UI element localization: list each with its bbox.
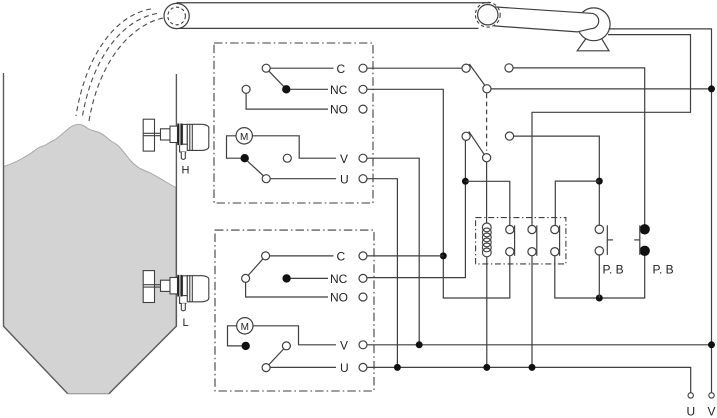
node: U row / H-U line junction	[394, 364, 400, 370]
pipe elbow	[164, 3, 189, 28]
H box: V side contact circle	[283, 154, 291, 162]
svg-text:NC: NC	[330, 272, 348, 286]
gang link (dashed)	[486, 94, 488, 151]
wire H box C to selector	[367, 67, 462, 69]
label V (terminal)	[708, 405, 716, 418]
relay contact K1	[506, 225, 515, 255]
wire H box U down to L box U row	[367, 179, 397, 368]
label U (H box)	[340, 172, 349, 186]
H box: NC contact (closed, filled)	[283, 86, 290, 93]
svg-text:M: M	[241, 322, 249, 333]
L box: motor pivot contact (filled)	[242, 342, 249, 349]
label L	[183, 317, 189, 329]
svg-text:V: V	[340, 152, 348, 166]
H box: terminal V	[359, 154, 367, 162]
push button PB1 (NO)	[595, 225, 613, 298]
selector switch lower pole: moving contact	[483, 154, 491, 162]
label U (L box)	[340, 361, 349, 375]
relay contact K3	[551, 225, 560, 255]
L box: NC contact (filled)	[283, 275, 290, 282]
H box: terminal NO	[359, 105, 367, 113]
label V (L box)	[340, 339, 348, 353]
motor M (L box)	[237, 318, 253, 334]
label P.B (PB1)	[603, 263, 624, 277]
L box: wire NO row	[246, 282, 328, 297]
level switch H (paddle sensor)	[143, 119, 209, 159]
pump base	[577, 39, 609, 51]
tank left wall	[4, 73, 68, 394]
svg-text:P. B: P. B	[603, 263, 624, 277]
L box: wire U row	[270, 366, 336, 368]
wire coil bottom to U bus	[486, 257, 488, 368]
motor M (H box)	[236, 128, 252, 144]
label H	[182, 165, 190, 177]
switch box L (border)	[215, 230, 374, 391]
svg-text:NO: NO	[330, 103, 348, 117]
supply pipe (horizontal)	[177, 3, 491, 29]
L box: contact C circle	[262, 252, 270, 260]
H box: wire NC row	[290, 88, 328, 90]
material mound	[4, 124, 176, 393]
L box: wire NC row	[290, 277, 328, 279]
wire node B to relay contact 1 top	[465, 181, 509, 225]
selector switch upper pole: moving contact	[483, 85, 491, 93]
pipe joint (dashed flange)	[475, 2, 500, 27]
svg-text:V: V	[708, 405, 716, 418]
L box: terminal NO	[359, 293, 367, 301]
tank right wall	[109, 74, 176, 394]
label NO (L box)	[330, 291, 348, 305]
label C (L box)	[337, 250, 346, 264]
L box: wire M right to V row	[253, 326, 336, 345]
H box: terminal C	[359, 64, 367, 72]
node C junction	[596, 178, 602, 184]
node B junction	[462, 178, 468, 184]
label U (terminal)	[687, 405, 696, 418]
H box: motor switch arm	[247, 161, 263, 176]
relay coil K	[482, 223, 491, 257]
selector switch upper pole: right contact	[505, 64, 513, 72]
relay box (border)	[476, 218, 566, 264]
H box: wire U row	[270, 178, 336, 180]
label NO (H box)	[330, 103, 348, 117]
wire H box NC down to node A	[367, 89, 443, 253]
H box: U side contact circle	[262, 175, 270, 183]
node: U row / K2 junction	[529, 364, 535, 370]
slanted pipe into pump	[494, 7, 599, 32]
label P.B (PB2)	[653, 263, 674, 277]
terminal V	[709, 393, 714, 398]
selector switch lower pole: arm	[469, 131, 484, 154]
L box: wire C row	[270, 255, 334, 257]
label NC (H box)	[330, 83, 348, 97]
L box: switch arm C-NO	[248, 259, 263, 276]
L box: NO side contact circle	[242, 274, 250, 282]
wire lower right contact to node C	[514, 136, 600, 225]
node: V row / H-V line junction	[416, 342, 422, 348]
wire right edge bus (V)	[711, 86, 713, 393]
pump P	[577, 8, 610, 41]
L box: terminal V	[359, 341, 367, 349]
wire pump V to right edge	[609, 29, 712, 86]
H box: wire M right to V row	[252, 136, 336, 158]
svg-text:NC: NC	[330, 83, 348, 97]
svg-text:U: U	[340, 361, 349, 375]
L box: wire M left bracket	[228, 326, 242, 346]
wire relay contact K3 bottom to push buttons	[555, 256, 645, 298]
H box: switch arm C-NC	[269, 71, 284, 87]
H box: NO side contact circle	[242, 85, 250, 93]
wire pump U to relay contact 2	[532, 35, 691, 226]
wire L box C row to node A	[367, 255, 443, 257]
selector switch upper pole: left contact	[462, 64, 470, 72]
H box: motor pivot contact (filled)	[241, 155, 248, 162]
svg-text:M: M	[240, 132, 248, 143]
L box: terminal C	[359, 252, 367, 260]
L box: terminal NC	[359, 274, 367, 282]
node: right edge junction	[709, 86, 715, 92]
L box: terminal U	[359, 363, 367, 371]
wire H box V down to L box V row	[367, 158, 419, 345]
svg-text:C: C	[337, 62, 346, 76]
wire upper moving contact to right edge	[491, 88, 712, 90]
label V (H box)	[340, 152, 348, 166]
H box: wire C row	[270, 67, 333, 69]
label NC (L box)	[330, 272, 348, 286]
L box: U side contact circle	[262, 364, 270, 372]
node: U row / coil junction	[484, 364, 490, 370]
push button PB2 (NC)	[634, 225, 649, 256]
label C (H box)	[337, 62, 346, 76]
H box: wire NO row	[246, 93, 328, 109]
switch box H (border)	[214, 43, 373, 203]
wire L box V row to right edge	[367, 344, 712, 346]
svg-text:L: L	[183, 317, 189, 329]
svg-text:NO: NO	[330, 291, 348, 305]
wire L box U row to terminal U	[367, 367, 691, 392]
H box: terminal U	[359, 175, 367, 183]
selector switch lower pole: right contact	[505, 132, 513, 140]
filling streams (dashed)	[76, 9, 163, 121]
wire lower left contact down to node B	[367, 140, 465, 277]
terminal U	[688, 393, 693, 398]
level switch L (paddle sensor)	[143, 271, 209, 311]
H box: contact C circle	[262, 64, 270, 72]
node A junction	[440, 253, 446, 259]
selector switch lower pole: left contact	[462, 132, 470, 140]
selector switch upper pole: arm	[469, 64, 484, 85]
svg-text:U: U	[687, 405, 696, 418]
svg-text:C: C	[337, 250, 346, 264]
wire lower moving contact to relay coil	[486, 162, 488, 224]
node D junction (PB1 bottom)	[596, 295, 602, 301]
wire relay contact K1 bottom to node A	[443, 256, 510, 298]
wire relay contact K2 bottom to U bus	[531, 256, 533, 368]
wire node C to relay contact 3 top	[555, 181, 599, 225]
H box: terminal NC	[359, 85, 367, 93]
L box: motor switch arm	[269, 349, 284, 365]
wire upper right contact to push button PB2	[513, 68, 645, 225]
tank bottom edge	[68, 393, 109, 395]
relay contact K2	[528, 225, 537, 255]
svg-text:P. B: P. B	[653, 263, 674, 277]
H box: wire M left bracket	[227, 136, 242, 158]
L box: V side contact circle	[282, 342, 290, 350]
svg-text:U: U	[340, 172, 349, 186]
svg-text:V: V	[340, 339, 348, 353]
svg-text:H: H	[182, 165, 190, 177]
node: V row / right edge junction	[709, 342, 715, 348]
